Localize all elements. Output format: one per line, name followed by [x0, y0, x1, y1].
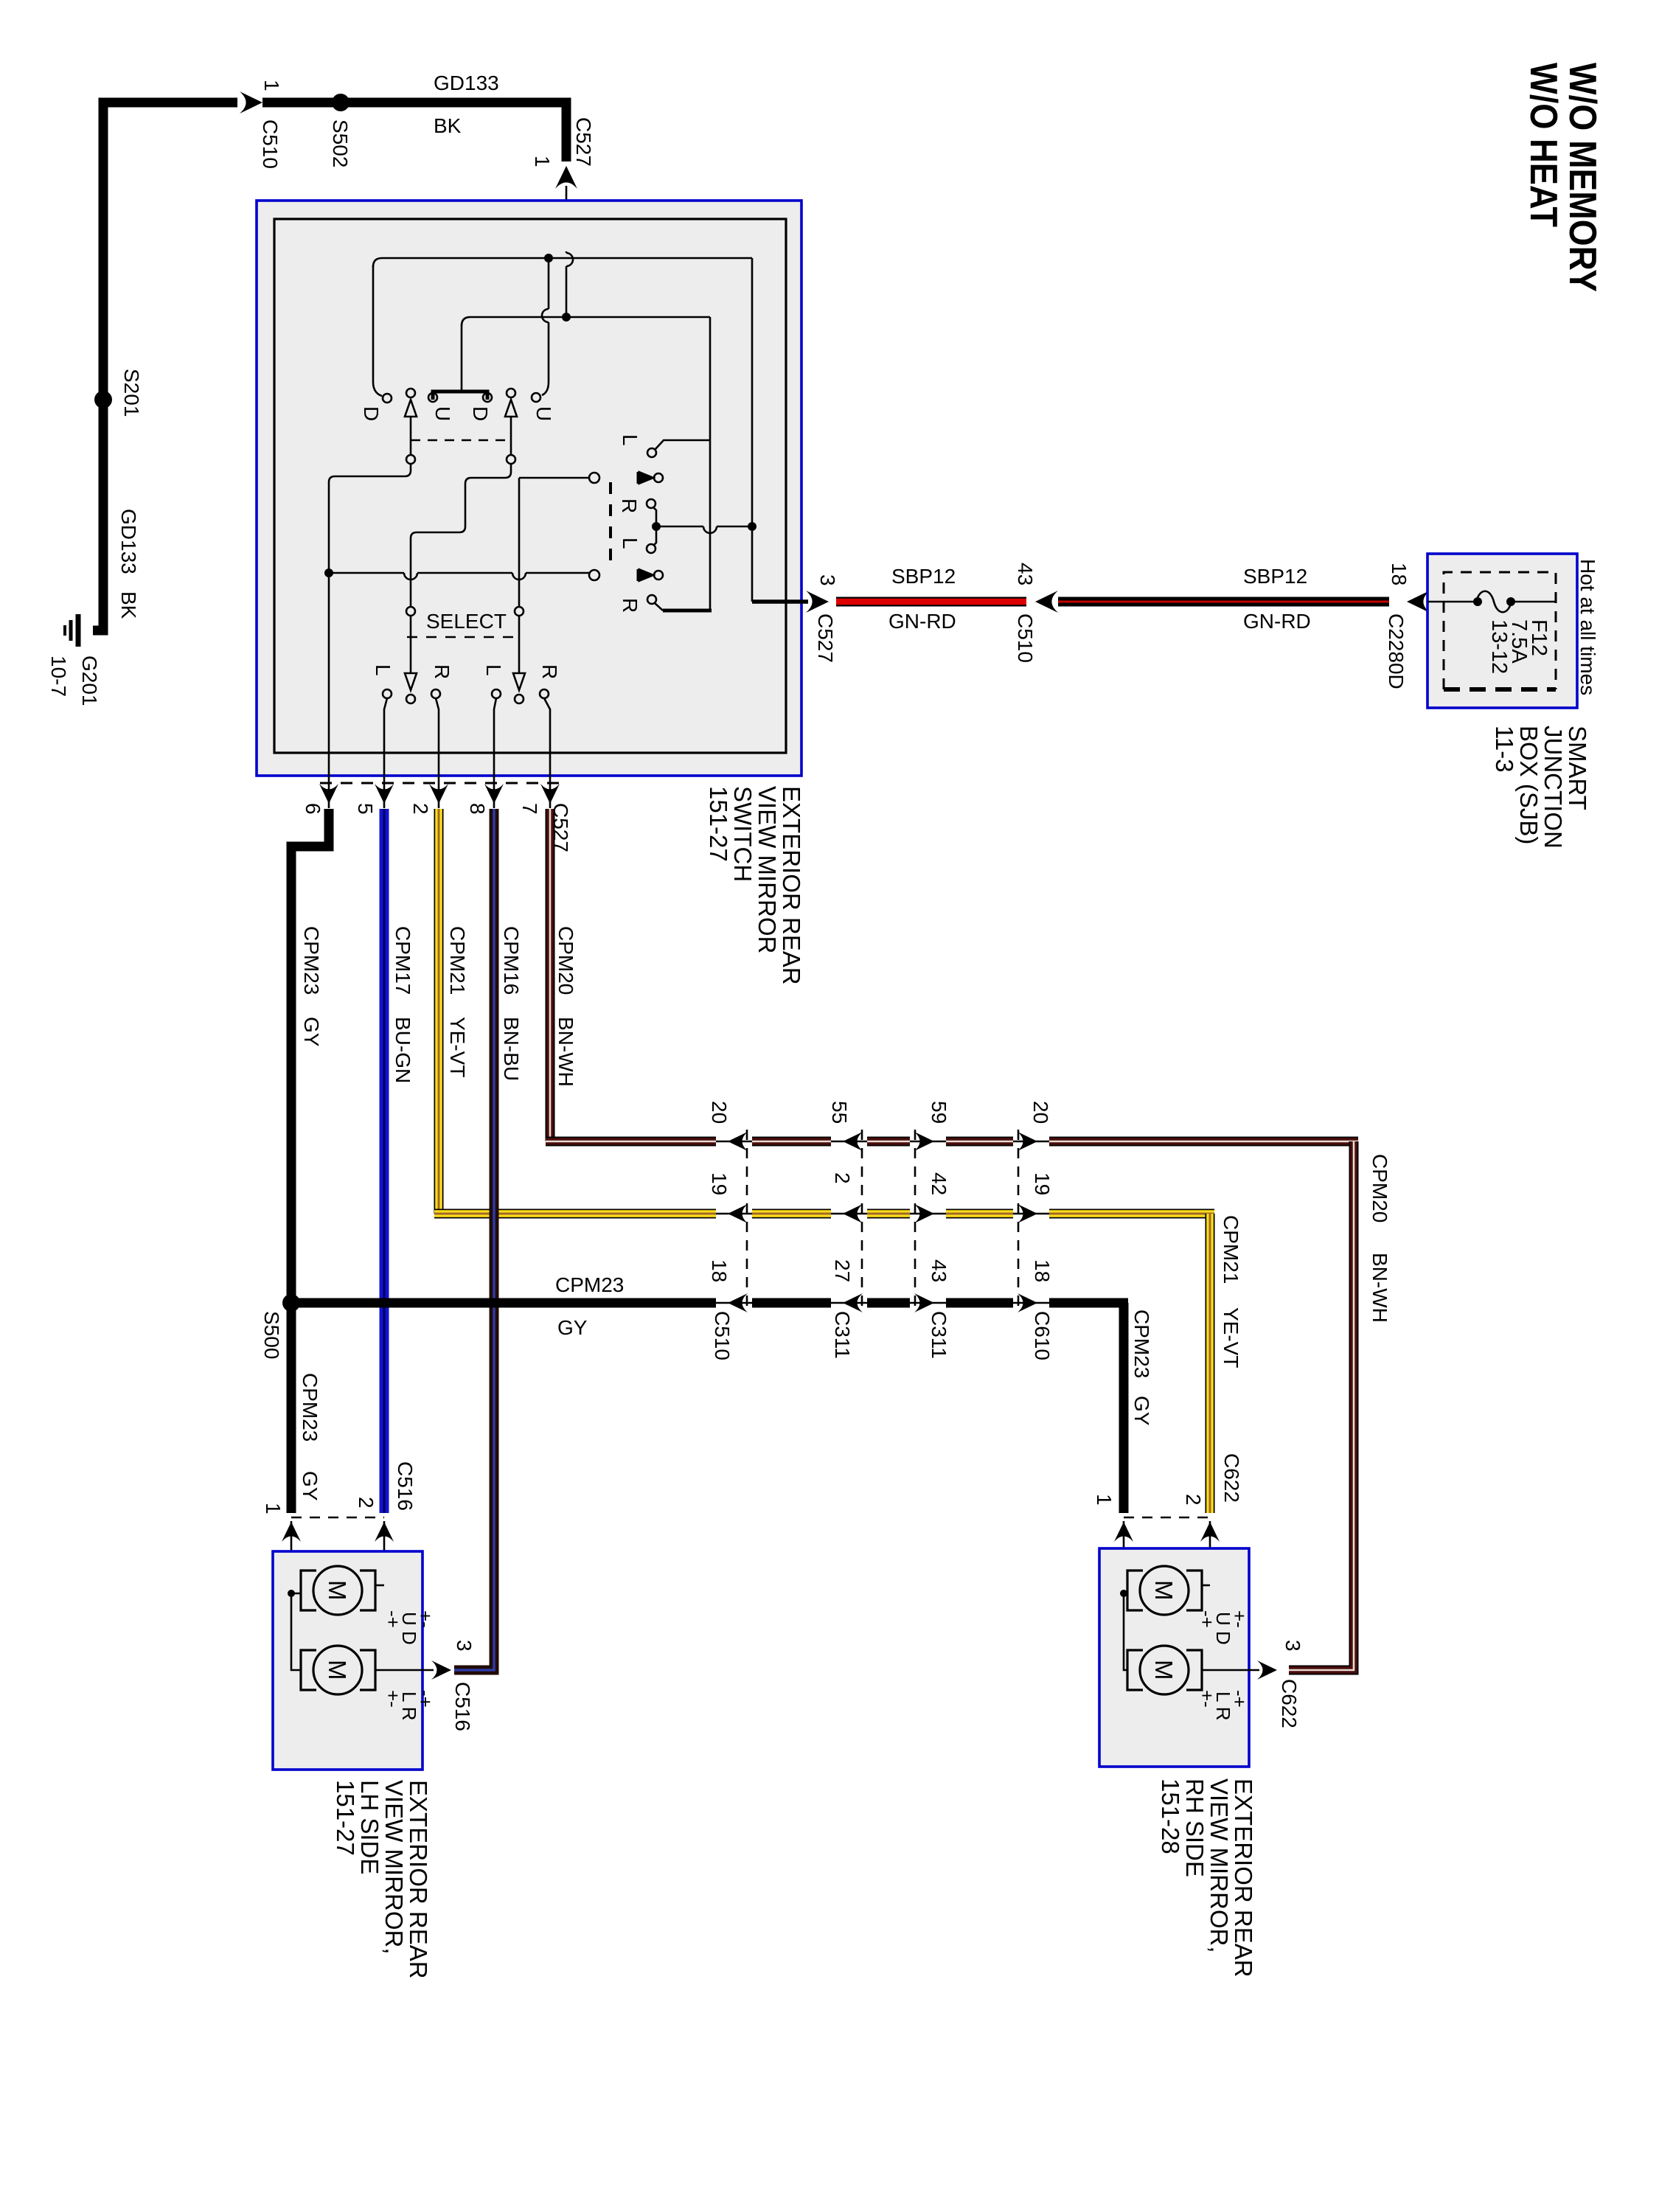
- center contacts pair: [647, 499, 655, 508]
- svg-text:YE-VT: YE-VT: [1220, 1307, 1242, 1368]
- connector C510 arrow pin 1: [240, 91, 262, 114]
- svg-text:C610: C610: [1031, 1311, 1054, 1360]
- svg-text:7: 7: [518, 803, 541, 815]
- svg-text:GD133: GD133: [117, 509, 140, 574]
- contact U2: [532, 393, 540, 402]
- svg-text:L: L: [619, 434, 641, 446]
- motor M left/right RH: [1127, 1650, 1143, 1690]
- motor M left/right LH: [301, 1650, 316, 1690]
- wire motor LR output to C622 pin3: [1202, 1669, 1259, 1672]
- connector C527 pin3 arrow: [806, 591, 829, 613]
- wire SBP12 GN-RD segment 2: [1058, 597, 1389, 607]
- connector C510 dashed: [746, 1130, 748, 1312]
- wire CPM23 GY from S500 down to LH mirror pin1: [287, 1303, 296, 1513]
- svg-text:GN-RD: GN-RD: [888, 610, 956, 633]
- wire GD133 BK from C510 to corner and down: [262, 102, 566, 161]
- svg-text:D: D: [469, 406, 492, 421]
- svg-text:SELECT: SELECT: [426, 610, 507, 633]
- connector arrows row BN-WH: [728, 1132, 748, 1151]
- svg-text:BU-GN: BU-GN: [392, 1017, 414, 1083]
- svg-text:43: 43: [928, 1259, 950, 1282]
- svg-text:M: M: [324, 1580, 351, 1601]
- wire stubs into LH mirror: [291, 1521, 384, 1593]
- svg-text:2: 2: [409, 803, 432, 815]
- connector arrows row GY: [728, 1293, 748, 1312]
- svg-text:42: 42: [928, 1172, 950, 1195]
- connector arrow pin 7: [540, 784, 560, 804]
- wire y777 rail (hops x557 and x704): [329, 572, 589, 574]
- bracket joining U1 and D2: [433, 392, 487, 400]
- svg-text:R: R: [538, 664, 561, 679]
- row B arm arrow: [637, 569, 641, 581]
- svg-text:55: 55: [828, 1101, 851, 1124]
- svg-text:27: 27: [831, 1259, 854, 1282]
- wire arm1 to pin6 node: [329, 464, 411, 573]
- svg-text:GY: GY: [557, 1316, 588, 1339]
- svg-text:3: 3: [816, 574, 839, 586]
- svg-text:L: L: [619, 538, 641, 549]
- wire y350 rail: [373, 258, 752, 267]
- connector C610 dashed: [1018, 1130, 1020, 1312]
- wire into switch box from C527: [566, 186, 568, 251]
- svg-text:CPM23: CPM23: [1130, 1310, 1153, 1378]
- contact R pin2: [431, 689, 440, 698]
- svg-text:+-: +-: [1228, 1610, 1251, 1628]
- connector arrow pin 8: [484, 784, 504, 804]
- SELECT switch right pole: [515, 607, 524, 616]
- dashed gang link U/D arms: [411, 439, 511, 442]
- svg-text:S502: S502: [329, 119, 352, 167]
- smart junction box: [1427, 554, 1577, 708]
- contact D1: [383, 394, 392, 403]
- svg-text:BN-BU: BN-BU: [500, 1017, 523, 1081]
- contact U1: [428, 393, 437, 402]
- sjb inner dashed rectangle: [1444, 572, 1556, 689]
- switch arm U/D left: [406, 389, 415, 397]
- svg-text:43: 43: [1014, 563, 1037, 585]
- wire SBP12 GN-RD segment 1: [836, 597, 1026, 607]
- connector arrow C516 pin3: [431, 1660, 451, 1680]
- svg-text:R: R: [618, 498, 641, 513]
- connector arrow C622 pin1: [1114, 1522, 1133, 1542]
- connector C622 dashed (RH mirror): [1124, 1517, 1210, 1519]
- wire CPM16 BN-BU pin8 (dark brown) down to LH mirror pin3: [454, 809, 494, 1670]
- connector arrow C622 pin3: [1257, 1660, 1277, 1680]
- connector arrow pin 5: [375, 784, 394, 804]
- exterior rear view mirror LH box: [273, 1551, 422, 1770]
- wire CPM21 YE-VT bus row thin joints: [715, 1213, 1050, 1215]
- connector C510 arrow (SBP12): [1035, 591, 1058, 613]
- connector C527 arrow pin 1 (pointing up): [555, 166, 577, 189]
- svg-text:W/O MEMORY: W/O MEMORY: [1561, 63, 1604, 292]
- node center pair junction: [652, 522, 661, 531]
- switch box inner rectangle: [274, 219, 786, 753]
- contact D2: [483, 393, 492, 402]
- svg-text:SBP12: SBP12: [1243, 565, 1307, 588]
- svg-text:BK: BK: [117, 591, 140, 619]
- svg-text:L: L: [372, 664, 394, 676]
- svg-text:YE-VT: YE-VT: [446, 1017, 469, 1077]
- wire CPM21 YE-VT pin2 (yellow) down to bus row: [434, 809, 444, 1214]
- svg-text:-+: -+: [414, 1690, 437, 1708]
- wire CPM20 BN-WH bus thick segments: [546, 1137, 1358, 1147]
- wire main vertical from C527 pin1 (hops y350 rail): [566, 251, 568, 316]
- wire CPM20 BN-WH bus row thin joints: [715, 1141, 1050, 1143]
- svg-text:1: 1: [262, 1503, 285, 1514]
- svg-text:2: 2: [355, 1497, 378, 1509]
- wire CPM20 BN-WH right vertical to RH mirror pin3: [1289, 1141, 1354, 1670]
- wire GD133 BK top horizontal segment left of C510: [108, 98, 237, 108]
- svg-text:R: R: [619, 598, 641, 613]
- svg-text:1: 1: [531, 156, 554, 167]
- connector C527 dashed line: [320, 782, 559, 785]
- svg-text:G201: G201: [78, 655, 101, 706]
- svg-text:2: 2: [1182, 1494, 1205, 1506]
- wire pin2 to motor UD RH: [1202, 1585, 1210, 1587]
- row B open contact: [589, 570, 599, 580]
- svg-text:C2280D: C2280D: [1385, 613, 1408, 689]
- dashed gang link R/L arms: [609, 482, 612, 566]
- svg-text:18: 18: [1388, 563, 1411, 585]
- svg-text:U: U: [532, 406, 555, 421]
- contact R pin7: [540, 689, 549, 698]
- connector arrow C516 pin2: [375, 1522, 394, 1542]
- svg-text:C622: C622: [1220, 1453, 1243, 1503]
- switch arm U/D right: [507, 389, 515, 397]
- wire CPM23 GY pin6 (black) with jog and down to S500: [291, 809, 329, 1303]
- motor M up/down RH: [1127, 1571, 1143, 1610]
- svg-text:GN-RD: GN-RD: [1243, 610, 1311, 633]
- svg-text:BN-WH: BN-WH: [554, 1017, 577, 1087]
- wire CPM23 GY bus row thin joints: [715, 1302, 1050, 1304]
- svg-text:CPM17: CPM17: [392, 926, 414, 995]
- connector C311b dashed: [914, 1130, 917, 1312]
- wire center pair to x1020 (hops x963): [656, 526, 752, 528]
- node junction on y430 rail: [562, 313, 571, 321]
- svg-text:1: 1: [1093, 1494, 1116, 1506]
- node on x1020: [748, 522, 757, 531]
- wire pin2 to motor UD LH: [375, 1585, 384, 1587]
- svg-text:R: R: [431, 664, 453, 679]
- svg-text:C516: C516: [394, 1461, 417, 1511]
- wire CPM16 BN-BU overpass at yellow bus crossing: [490, 1194, 499, 1239]
- exterior rear view mirror switch box: [257, 201, 801, 776]
- svg-text:D: D: [360, 406, 383, 421]
- svg-text:20: 20: [708, 1101, 731, 1124]
- svg-text:Hot at all times: Hot at all times: [1576, 559, 1599, 695]
- row A open contact: [589, 473, 599, 483]
- svg-text:M: M: [1150, 1660, 1178, 1680]
- contact R bottom right: [647, 595, 656, 604]
- wire pin7 stub: [544, 698, 550, 808]
- node pin6 junction: [324, 568, 333, 577]
- svg-text:CPM20: CPM20: [1368, 1154, 1391, 1222]
- wire CPM20 BN-WH pin7 (maroon) down to bus row: [546, 809, 555, 1141]
- svg-text:18: 18: [1031, 1259, 1054, 1282]
- svg-text:3: 3: [1281, 1640, 1304, 1652]
- svg-text:W/O HEAT: W/O HEAT: [1522, 63, 1565, 227]
- wire L contact to x965: [655, 440, 710, 450]
- wire pin8 stub: [494, 698, 496, 808]
- svg-text:SBP12: SBP12: [891, 565, 956, 588]
- svg-text:GY: GY: [1130, 1396, 1153, 1426]
- svg-text:GY: GY: [300, 1017, 323, 1047]
- svg-text:U: U: [431, 406, 454, 421]
- wire CPM23 GY bus thick segments: [291, 1298, 1128, 1308]
- svg-text:1: 1: [260, 80, 283, 91]
- motor M up/down LH: [301, 1571, 316, 1610]
- wire x963 vertical: [709, 317, 712, 611]
- connector arrow C516 pin1: [282, 1522, 301, 1542]
- svg-text:C622: C622: [1278, 1679, 1301, 1728]
- contact L pin8: [492, 689, 501, 698]
- svg-text:8: 8: [466, 803, 489, 815]
- wire y430 rail: [462, 317, 710, 326]
- splice S502: [332, 94, 349, 111]
- wire drop x744 to U2 (hops y430 rail): [542, 262, 549, 395]
- svg-text:CPM23: CPM23: [555, 1273, 624, 1296]
- svg-text:C527: C527: [814, 613, 837, 663]
- connector arrow pin 6: [319, 784, 338, 804]
- wire pin1 to motors LH: [291, 1593, 301, 1670]
- svg-text:5: 5: [354, 803, 377, 815]
- node junction on y350 rail: [544, 254, 553, 262]
- svg-text:BN-WH: BN-WH: [1368, 1253, 1391, 1323]
- svg-text:+-: +-: [414, 1610, 437, 1628]
- wire CPM21 YE-VT bus thick segments: [434, 1209, 1214, 1219]
- svg-text:-+: -+: [1228, 1690, 1251, 1708]
- wire CPM23 GY right vertical to RH mirror pin1: [1119, 1303, 1129, 1513]
- wire CPM21 YE-VT right vertical to RH mirror pin2: [1206, 1214, 1215, 1513]
- connector C2280D arrow: [1407, 591, 1430, 613]
- svg-text:C510: C510: [1014, 613, 1037, 663]
- wire motor LR output to C516 pin3: [375, 1669, 434, 1672]
- wire GD133 BK left vertical to ground: [93, 102, 108, 630]
- svg-text:6: 6: [302, 803, 324, 815]
- wire CPM17 BU-GN pin5 (blue): [380, 809, 389, 1513]
- svg-text:M: M: [1150, 1580, 1178, 1601]
- svg-text:C527: C527: [572, 117, 595, 167]
- svg-text:18: 18: [708, 1259, 731, 1282]
- connector C311 dashed: [861, 1130, 863, 1312]
- wire x1020 vertical to C527 pin3 exit: [751, 258, 754, 602]
- splice S500: [282, 1294, 300, 1312]
- svg-text:CPM21: CPM21: [446, 926, 469, 995]
- wire through fuse: [1427, 601, 1476, 603]
- wire R contact thick link to x963: [655, 603, 663, 611]
- svg-text:C311: C311: [831, 1311, 854, 1359]
- svg-text:C510: C510: [259, 119, 282, 169]
- wire pin1 to motors RH: [1124, 1593, 1127, 1670]
- svg-text:C510: C510: [711, 1311, 734, 1360]
- ground G201 symbol: [76, 614, 81, 647]
- wire arm2 staircase to select left contact: [411, 464, 511, 607]
- svg-text:CPM23: CPM23: [299, 1373, 321, 1441]
- svg-text:CPM20: CPM20: [554, 926, 577, 995]
- svg-text:CPM21: CPM21: [1220, 1215, 1242, 1284]
- row A arm arrow: [637, 472, 641, 484]
- fuse F12 element: [1476, 591, 1512, 613]
- svg-text:10-7: 10-7: [47, 655, 70, 697]
- splice S201: [94, 391, 112, 408]
- SELECT switch left pole: [406, 607, 415, 616]
- wire drop to contact D1: [373, 265, 382, 396]
- svg-text:19: 19: [708, 1172, 731, 1195]
- connector C516 dashed (LH mirror): [291, 1517, 384, 1519]
- svg-text:C516: C516: [451, 1682, 474, 1731]
- svg-text:19: 19: [1031, 1172, 1054, 1195]
- connector arrows row YE-VT: [728, 1204, 748, 1223]
- svg-text:L: L: [482, 664, 505, 676]
- wire exit to C527 pin3: [752, 599, 808, 604]
- svg-text:S201: S201: [120, 369, 143, 417]
- wire select right feed / row A: [519, 478, 589, 607]
- svg-text:BK: BK: [434, 114, 462, 137]
- svg-text:M: M: [324, 1660, 351, 1680]
- exterior rear view mirror RH box: [1099, 1548, 1249, 1767]
- svg-text:C311: C311: [928, 1311, 950, 1359]
- contact L top right: [647, 448, 656, 457]
- svg-text:3: 3: [453, 1640, 476, 1652]
- svg-text:2: 2: [831, 1172, 854, 1184]
- connector arrow C622 pin2: [1200, 1522, 1220, 1542]
- svg-text:CPM23: CPM23: [300, 926, 323, 995]
- wire drop from y430 to bracket: [461, 324, 463, 390]
- svg-text:GD133: GD133: [434, 72, 499, 94]
- svg-text:59: 59: [928, 1101, 950, 1124]
- connector arrow pin 2: [429, 784, 448, 804]
- svg-text:S500: S500: [260, 1311, 283, 1359]
- contact L pin5: [383, 689, 392, 698]
- wire pin2 stub: [436, 698, 439, 808]
- wire pin5 stub: [384, 698, 387, 808]
- svg-text:GY: GY: [299, 1471, 321, 1501]
- fuse terminal dots: [1473, 597, 1482, 606]
- svg-text:CPM16: CPM16: [500, 926, 523, 995]
- wire pin6 stub: [328, 577, 330, 808]
- wire stubs into RH mirror: [1124, 1521, 1210, 1593]
- svg-text:20: 20: [1029, 1101, 1052, 1124]
